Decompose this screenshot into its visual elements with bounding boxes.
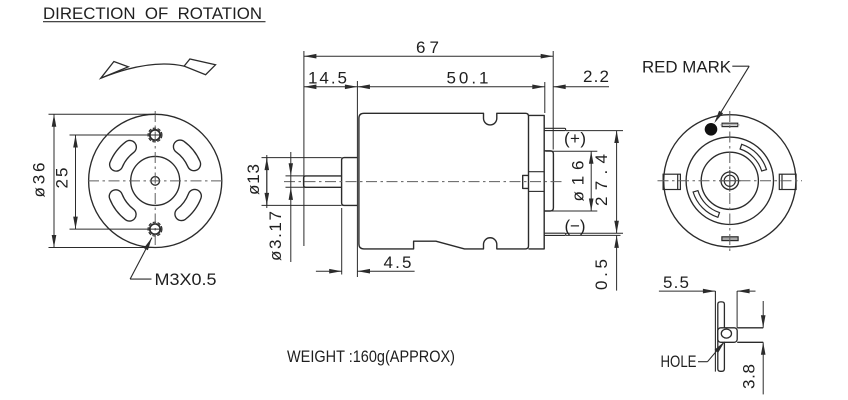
svg-text:5.5: 5.5 (663, 273, 689, 292)
dimension 4.5 (316, 208, 415, 275)
svg-text:4.5: 4.5 (384, 253, 412, 272)
front center shaft hole (151, 177, 160, 186)
svg-text:2.2: 2.2 (583, 67, 609, 86)
terminal strip (718, 302, 725, 371)
rear end cap (529, 115, 545, 249)
svg-text:ø3.17: ø3.17 (266, 211, 285, 261)
svg-text:27.4: 27.4 (592, 154, 611, 206)
svg-text:67: 67 (416, 38, 439, 57)
svg-text:WEIGHT :160g(APPROX): WEIGHT :160g(APPROX) (287, 347, 455, 366)
red mark leader (714, 66, 749, 123)
rear boss (o16) (544, 151, 553, 211)
rear outer circle (664, 115, 796, 247)
dimension o16 (546, 151, 598, 211)
terminal hole box (718, 328, 737, 343)
svg-text:ø13: ø13 (244, 164, 263, 195)
right tab (779, 174, 796, 189)
mounting hole bottom M3 (150, 224, 160, 234)
cap pocket lines (529, 171, 545, 173)
detail edge line (714, 291, 716, 372)
dimension 25 (70, 135, 163, 229)
extension lines side view (304, 51, 553, 277)
rotation arrow (101, 59, 216, 78)
rear bearing box (523, 175, 529, 188)
svg-text:RED MARK: RED MARK (642, 58, 732, 77)
dimension o13 (262, 155, 342, 208)
bushing (o13) (342, 158, 358, 206)
motor body (can) with notches and bottom bump (359, 113, 529, 249)
front hub circle (131, 156, 180, 205)
detail ext line right (736, 291, 738, 328)
side view centerline (284, 181, 562, 183)
dimension o36 (49, 114, 156, 247)
terminal hole (721, 329, 731, 338)
svg-text:3.8: 3.8 (740, 364, 759, 389)
dimension o3.17 (286, 152, 304, 262)
terminal tab lines (737, 328, 763, 343)
front view centerlines (88, 111, 223, 248)
rear vent arc lower-left (693, 191, 719, 218)
rear vent arc upper-right (740, 144, 766, 171)
rear centerlines (658, 111, 803, 254)
svg-text:ø16: ø16 (569, 161, 588, 202)
svg-text:M3X0.5: M3X0.5 (155, 270, 217, 289)
leader M3X0.5 (130, 238, 152, 280)
dimension 5.5 (659, 290, 756, 292)
svg-text:14.5: 14.5 (308, 69, 347, 88)
svg-text:(−): (−) (565, 217, 586, 236)
vent slot lower-left (109, 190, 136, 221)
left tab (663, 174, 680, 189)
terminal (-) tab (544, 233, 566, 235)
vent slot lower-right (175, 189, 201, 220)
dimension 3.8 (762, 301, 764, 394)
rear shaft end (724, 175, 735, 186)
vent slot upper-left (110, 140, 137, 171)
front view outer circle (89, 114, 222, 247)
svg-text:(+): (+) (564, 129, 586, 148)
shaft (304, 176, 342, 187)
svg-text:DIRECTION OF ROTATION: DIRECTION OF ROTATION (43, 4, 262, 23)
dimension 67 (304, 55, 553, 57)
rear inner circle (701, 152, 758, 209)
svg-text:50.1: 50.1 (447, 69, 489, 88)
dimension 27.4 (616, 131, 618, 234)
top terminal slot (722, 123, 738, 126)
terminal extension lines (566, 131, 623, 236)
svg-text:0.5: 0.5 (592, 259, 611, 290)
red mark dot (705, 123, 718, 136)
svg-text:25: 25 (53, 168, 72, 189)
dimension 14.5 (304, 86, 358, 88)
dimension 2.2 (553, 86, 609, 88)
rear cap circle (686, 137, 773, 224)
dimension 0.5 (616, 235, 618, 290)
svg-text:HOLE: HOLE (661, 352, 697, 371)
leader HOLE (698, 341, 725, 361)
dimension 50.1 (357, 86, 544, 88)
vent slot upper-right (173, 140, 200, 171)
rear hub outer (721, 172, 739, 190)
bottom terminal slot (722, 237, 738, 241)
svg-text:ø36: ø36 (30, 163, 49, 198)
title DIRECTION OF ROTATION (43, 4, 266, 23)
mounting hole top M3 (150, 130, 160, 140)
terminal (+) tab (544, 128, 565, 130)
rear hub crosshair (719, 170, 741, 192)
